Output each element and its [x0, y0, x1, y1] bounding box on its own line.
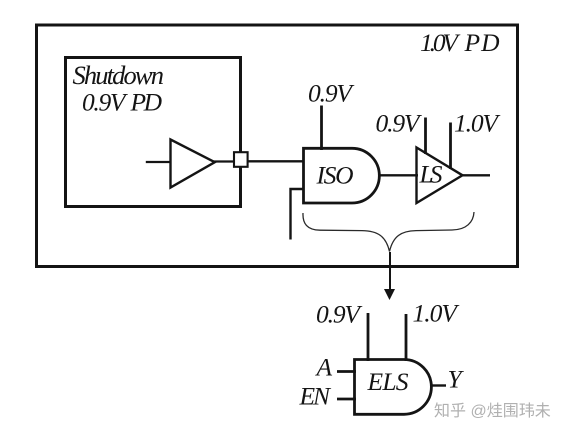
pin Y stub — [431, 384, 447, 386]
wire ISO second input — [291, 189, 305, 240]
wire ISO 0.9V supply — [320, 106, 323, 151]
node square (domain boundary port) — [234, 152, 248, 167]
wire ISO to LS — [378, 174, 418, 176]
buffer U1 — [171, 140, 215, 188]
pin A stub — [337, 370, 356, 373]
svg-text:PD: PD — [130, 88, 163, 117]
svg-text:0.9V: 0.9V — [82, 88, 129, 117]
svg-text:0.9V: 0.9V — [376, 109, 423, 138]
arrow to ELS detail — [389, 252, 391, 291]
svg-text:ELS: ELS — [367, 367, 409, 396]
wire buffer input — [146, 161, 171, 163]
wire ELS 0.9V supply — [367, 313, 370, 361]
isolation cell ISO — [304, 148, 380, 203]
svg-text:Shutdown: Shutdown — [73, 60, 165, 90]
svg-text:0.9V: 0.9V — [308, 79, 355, 108]
enable level shifter ELS — [355, 360, 432, 415]
svg-text:知乎 @烓围玮未: 知乎 @烓围玮未 — [434, 402, 551, 420]
svg-text:0.9V: 0.9V — [316, 300, 363, 329]
svg-text:EN: EN — [299, 382, 332, 411]
wire node to ISO — [246, 160, 305, 162]
wire LS 1.0V supply — [449, 123, 452, 170]
svg-text:ISO: ISO — [316, 161, 354, 190]
pin EN stub — [337, 398, 356, 401]
svg-text:1.0V: 1.0V — [413, 299, 461, 328]
wire buffer to node — [213, 160, 236, 162]
wire LS 0.9V supply — [424, 118, 427, 155]
svg-text:1.0V: 1.0V — [454, 109, 501, 138]
svg-text:Y: Y — [448, 365, 465, 394]
svg-text:A: A — [315, 353, 333, 382]
svg-text:1.0V: 1.0V — [420, 28, 461, 57]
shutdown domain box 0.9V PD — [66, 58, 241, 207]
svg-text:LS: LS — [419, 160, 443, 189]
svg-text:PD: PD — [464, 28, 501, 57]
level shifter LS — [417, 148, 463, 204]
power domain box 1.0V PD — [37, 25, 518, 267]
wire ELS 1.0V supply — [405, 314, 408, 361]
wire LS output — [461, 174, 490, 176]
brace grouping ISO and LS — [303, 212, 474, 252]
